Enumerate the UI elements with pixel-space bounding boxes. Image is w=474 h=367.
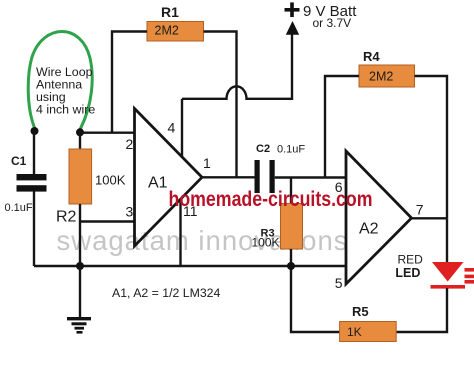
svg-text:2: 2 — [126, 136, 134, 152]
svg-text:or 3.7V: or 3.7V — [313, 16, 352, 30]
wire R3 bottom through ground rail to R5 — [291, 249, 340, 332]
wire R2 bottom to ground rail — [79, 204, 81, 266]
wire output node to LED — [446, 218, 448, 262]
svg-text:C1: C1 — [11, 154, 27, 168]
svg-text:3: 3 — [126, 204, 134, 220]
wire A1 pin 4 stem — [181, 99, 183, 157]
wire R4 right to A2 output node — [415, 76, 448, 218]
svg-text:0.1uF: 0.1uF — [277, 143, 305, 155]
resistor R2 — [69, 149, 92, 204]
svg-text:1: 1 — [203, 155, 211, 171]
svg-text:7: 7 — [416, 201, 424, 217]
op-amp A1 — [135, 109, 203, 247]
svg-text:C2: C2 — [256, 143, 270, 155]
svg-text:4: 4 — [168, 120, 176, 136]
wire LED cathode to R5 — [396, 288, 447, 332]
svg-text:1K: 1K — [347, 325, 362, 339]
node antenna right terminal — [76, 128, 84, 136]
op-amp A2 — [346, 151, 412, 284]
svg-text:LED: LED — [395, 266, 420, 280]
resistor R3 — [281, 204, 303, 250]
svg-text:100K: 100K — [252, 236, 280, 250]
svg-text:2M2: 2M2 — [369, 70, 393, 84]
svg-text:RED: RED — [398, 253, 424, 267]
wire supply rail with hop over R1 column — [182, 34, 292, 99]
wire ground stem — [79, 266, 81, 318]
svg-text:4 inch wire: 4 inch wire — [36, 103, 95, 117]
wire A1 output to C2 — [202, 176, 255, 178]
node antenna left terminal — [31, 127, 39, 135]
svg-text:0.1uF: 0.1uF — [5, 202, 33, 214]
supply arrowhead — [286, 21, 299, 35]
resistor R1 — [147, 22, 204, 42]
wire antenna right to R2 top — [79, 132, 81, 149]
svg-text:5: 5 — [335, 275, 343, 291]
svg-text:R4: R4 — [363, 49, 380, 64]
wire R1 right to A1 output — [204, 32, 237, 178]
wire pin2 net: antenna right to A1 pin 2 — [80, 131, 135, 133]
node R3 ground junction — [287, 262, 295, 270]
svg-text:2M2: 2M2 — [155, 24, 179, 38]
svg-text:R2: R2 — [56, 209, 77, 226]
wire C2 to A2 pin 6 — [275, 176, 346, 178]
capacitor C1 — [17, 174, 47, 180]
svg-text:A1: A1 — [148, 175, 168, 192]
resistor R4 — [359, 65, 415, 87]
svg-text:R5: R5 — [352, 304, 369, 319]
ground symbol — [67, 317, 91, 320]
wire R1 left to pin2 net — [112, 32, 147, 133]
wire pin6 node to R3 — [290, 178, 292, 204]
svg-text:100K: 100K — [95, 173, 126, 188]
wire loop antenna — [28, 32, 92, 130]
wire antenna left to C1 — [33, 131, 35, 174]
wire A1 pin 3 to R2 bottom column — [80, 220, 135, 222]
wire R4 left to pin6 node — [325, 76, 359, 178]
wire C1 to ground rail — [33, 192, 35, 267]
svg-text:homemade-circuits.com: homemade-circuits.com — [169, 188, 373, 211]
plus symbol — [285, 8, 300, 12]
svg-text:A2: A2 — [359, 221, 379, 238]
resistor R5 — [340, 322, 397, 342]
capacitor C2 — [255, 160, 260, 193]
svg-text:A1, A2 = 1/2 LM324: A1, A2 = 1/2 LM324 — [112, 286, 221, 300]
LED rays — [465, 268, 474, 272]
wire ground rail — [34, 265, 346, 267]
svg-text:swagatam innovations: swagatam innovations — [57, 225, 348, 256]
wire A1 pin 11 stem to ground rail — [179, 199, 181, 266]
node R2 ground junction — [76, 262, 84, 270]
wire A2 output pin 7 — [412, 217, 448, 219]
LED D1 red — [432, 262, 464, 282]
svg-text:R1: R1 — [161, 4, 179, 20]
